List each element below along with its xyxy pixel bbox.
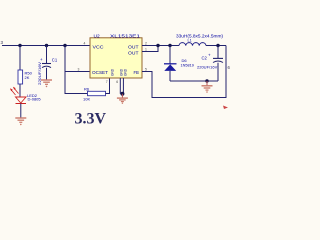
node junction at x20 xyxy=(18,44,21,47)
wire R6 to chip pin xyxy=(106,78,110,94)
svg-text:L1: L1 xyxy=(188,39,192,43)
wire OUT pin 2nd joins rail xyxy=(142,46,158,52)
diode D6 1N5819 xyxy=(164,58,194,71)
node junction at x158 xyxy=(156,44,159,47)
svg-text:XL1513E1: XL1513E1 xyxy=(110,34,140,40)
wire C2 to ground rail xyxy=(217,63,219,81)
svg-text:10K: 10K xyxy=(83,97,90,102)
node junction GND pins xyxy=(120,92,124,96)
svg-text:OUT: OUT xyxy=(128,44,139,49)
wire C2 branch down xyxy=(217,46,219,59)
svg-text:3.3V: 3.3V xyxy=(75,111,107,128)
node junction at x218 (C2 tap) xyxy=(216,44,219,47)
svg-text:7: 7 xyxy=(106,80,108,84)
svg-text:2K: 2K xyxy=(25,75,30,80)
svg-text:2: 2 xyxy=(145,41,147,45)
wire FB feedback loop xyxy=(142,46,226,98)
ground right xyxy=(202,81,213,93)
wire OCSET pin to branch xyxy=(65,71,90,73)
resistor R6 xyxy=(83,87,106,102)
svg-text:D-0805: D-0805 xyxy=(28,96,42,101)
svg-text:OUT: OUT xyxy=(128,50,139,55)
LED LED2 xyxy=(10,87,41,104)
capacitor C1 xyxy=(38,57,58,85)
svg-text:220UF/16V: 220UF/16V xyxy=(197,64,218,69)
svg-text:33uH(5.8x5.2x4.5mm): 33uH(5.8x5.2x4.5mm) xyxy=(176,33,224,38)
svg-text:4: 4 xyxy=(84,41,86,45)
inductor L1 xyxy=(176,33,224,45)
wire rail after inductor xyxy=(206,45,226,47)
wire LED branch down xyxy=(19,46,21,71)
wire C1 branch down xyxy=(46,46,48,64)
svg-text:U2: U2 xyxy=(94,34,100,40)
wire GND pin drops xyxy=(119,78,121,94)
svg-text:R6: R6 xyxy=(84,87,90,92)
svg-text:1N5819: 1N5819 xyxy=(181,63,194,67)
capacitor C2 xyxy=(197,53,223,70)
svg-text:GND: GND xyxy=(124,68,128,76)
node junction at x46 xyxy=(45,44,48,47)
wire OUT pin top xyxy=(142,45,179,47)
svg-text:C1: C1 xyxy=(52,58,58,63)
node junction at x65 xyxy=(63,44,66,47)
svg-text:OCSET: OCSET xyxy=(92,70,108,75)
svg-text:1: 1 xyxy=(145,47,147,51)
svg-text:FB: FB xyxy=(134,70,140,75)
svg-text:+: + xyxy=(208,53,211,58)
svg-text:VCC: VCC xyxy=(93,44,104,49)
svg-text:6: 6 xyxy=(116,80,118,84)
wire OCSET branch: rail down to R6 xyxy=(65,46,88,94)
wire diode branch down xyxy=(169,46,171,64)
node junction at x207 xyxy=(205,79,208,82)
wire C1 to ground xyxy=(46,68,48,80)
svg-text:C2: C2 xyxy=(202,56,208,61)
node junction at x170 (diode tap) xyxy=(168,44,171,47)
ground artifact bottom right xyxy=(223,106,228,110)
svg-text:GND: GND xyxy=(111,68,115,76)
op-amp U2 XL1513E1 body xyxy=(90,34,142,79)
wire main input rail xyxy=(2,45,90,47)
wire resistor to LED xyxy=(19,84,21,97)
ground under LED xyxy=(15,118,26,125)
ground under C1 xyxy=(41,80,52,87)
resistor R50 xyxy=(18,70,33,84)
svg-text:+: + xyxy=(40,57,43,62)
wire LED to ground xyxy=(20,104,22,118)
wire diode to ground rail xyxy=(169,71,171,81)
svg-text:5: 5 xyxy=(145,67,147,71)
svg-text:220UF/16V: 220UF/16V xyxy=(38,61,42,85)
wire ground rail (diode to C2) xyxy=(170,80,218,82)
svg-text:3: 3 xyxy=(78,67,80,71)
svg-text:D6: D6 xyxy=(182,58,188,63)
ground under chip xyxy=(117,94,128,104)
